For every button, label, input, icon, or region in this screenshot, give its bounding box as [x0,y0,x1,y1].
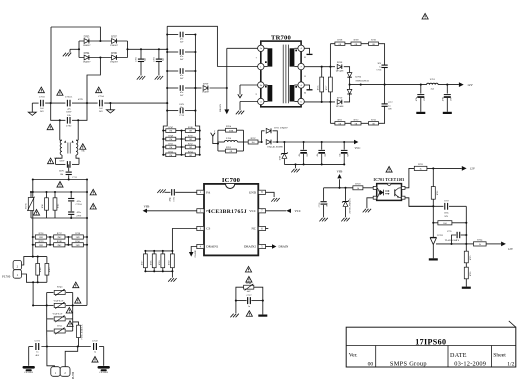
resistor R741 [46,192,48,198]
capacitor C719 [409,205,444,207]
svg-text:PL700: PL700 [72,371,75,379]
wire opto emitter [405,198,433,207]
wire rail-192 [33,191,87,193]
svg-text:R746: R746 [246,282,252,285]
wire [486,243,501,245]
wire [72,102,98,104]
warning triangle [90,203,96,209]
node [50,102,52,104]
svg-text:D711 UF4007: D711 UF4007 [274,127,288,130]
wire secondary bottom rail [304,101,335,103]
ground CS bank [168,278,171,282]
capacitor aux 321.7 [321,141,323,143]
wire stack left rail [46,293,48,332]
svg-text:D705: D705 [84,36,90,39]
svg-text:630V: 630V [60,161,65,163]
node [194,87,196,89]
svg-text:D706: D706 [111,52,117,55]
svg-text:1M: 1M [169,139,172,141]
capacitor C712 [167,34,178,36]
node [32,178,34,180]
resistor R752 [182,146,186,148]
svg-text:VFB: VFB [144,205,150,209]
IC701 pin boxes [373,186,377,189]
IC700 pin 7 VCC [258,209,265,213]
svg-text:1N4007: 1N4007 [202,90,210,93]
wire bridge left side [78,41,80,58]
wire x-cap rail [32,102,38,104]
wire [41,346,90,348]
wire aux rail [273,141,344,143]
title block outer box [346,327,516,367]
svg-text:D708: D708 [337,61,343,64]
svg-text:R742: R742 [58,204,60,209]
TR700 left pin 1b [258,82,264,88]
svg-text:R725: R725 [470,256,472,261]
svg-text:R705: R705 [226,146,232,149]
TR700 left pin 1a [258,45,264,51]
ground TL431 [429,258,438,260]
IC700 pin 6 NC [258,226,265,230]
resistor R729 [162,251,164,254]
svg-text:C721: C721 [35,340,41,343]
capacitor C727 [236,300,247,302]
resistor R741 [72,243,83,247]
capacitor C704 [99,100,101,107]
svg-text:47u: 47u [299,153,301,156]
title block divider 1 [375,346,377,368]
svg-text:SMPS Group: SMPS Group [390,360,427,367]
node [46,345,48,347]
svg-text:2M2: 2M2 [57,237,61,239]
svg-text:2n2: 2n2 [144,58,146,61]
wire bridge right to cap bank [128,48,168,50]
wire bottom ladder [330,122,383,124]
ground divider [462,287,471,289]
wire CS bank ground [171,271,173,277]
svg-text:R753: R753 [169,151,174,153]
wire grid left rail [162,131,164,155]
title block mid line [346,345,516,347]
wire to R707 [244,141,249,143]
TR700 left pin 3 [258,98,264,104]
svg-text:470u: 470u [443,97,445,101]
wire ladder right up + capacitor C717 [384,107,385,124]
wire grid right rail [199,131,201,155]
svg-text:12V: 12V [508,247,514,251]
wire to 12V [427,167,462,169]
wire to PL701 pin2 [65,347,78,367]
wire opto LED cathode to ground [367,198,373,208]
svg-text:D709: D709 [203,83,209,86]
svg-text:2n2: 2n2 [162,58,164,61]
svg-text:UF5408: UF5408 [336,70,344,73]
warning triangle [90,189,96,195]
varistor VAR2 [47,318,54,320]
capacitor C720B [68,211,74,213]
svg-text:R712: R712 [354,119,359,121]
svg-text:DRAIN: DRAIN [279,245,289,249]
resistor R728 [153,251,155,254]
wire right vertical joins stack [73,304,87,306]
svg-text:PL700: PL700 [2,274,11,278]
IC700 pin 5 DRAIN2 [258,244,265,248]
wire [344,97,350,102]
svg-text:IC702: IC702 [437,234,444,237]
wire pin1 cap [175,191,197,193]
ground C718 [319,218,322,222]
wire choke feed right [77,120,79,140]
svg-text:C702: C702 [66,125,72,128]
svg-text:VCC: VCC [354,146,360,150]
warning triangle [38,87,44,93]
varistor VA701 [30,192,32,198]
node [321,66,323,68]
svg-text:1/2: 1/2 [507,361,514,367]
warning triangle [80,144,86,150]
svg-text:4kV: 4kV [247,291,251,293]
TR700 stub 16 [304,85,309,89]
wire col joins [49,237,51,245]
resistor R747 [163,130,166,132]
node [321,101,323,103]
svg-text:D707: D707 [111,36,117,39]
node [68,178,70,180]
svg-text:470p: 470p [169,197,171,201]
svg-text:36V: 36V [377,63,381,65]
wire TL431 ref [436,243,466,245]
wire rectified down-left [87,58,100,104]
ground pin3 [236,111,239,115]
wire bridge right side [127,41,129,58]
resistor R712 [351,122,361,125]
net arrow 12V output [459,82,464,87]
ground ZD706 [341,218,344,222]
svg-text:630V: 630V [59,171,64,173]
svg-text:C711: C711 [72,177,77,179]
varistor VAR3 [47,330,54,332]
svg-text:1M: 1M [189,131,192,133]
svg-text:2M2: 2M2 [39,245,43,247]
resistor R704 [218,129,226,131]
wire rail-164 right [72,163,79,165]
wire secondary top rail [304,66,335,68]
svg-text:1N4007: 1N4007 [110,60,119,63]
svg-text:D706: D706 [356,75,362,78]
wire chassis right [103,347,105,366]
wire pin4 DRAIN1 [191,247,197,253]
IC700 pin 2 FB [197,209,204,213]
svg-text:DRAIN1: DRAIN1 [206,245,218,249]
net arrow 12V fb [501,242,506,247]
node Y-cap2 [158,48,160,50]
svg-text:R707: R707 [251,137,257,140]
svg-text:Sheet: Sheet [493,353,506,359]
wire choke feed left [59,120,61,140]
TR700 aux winding [268,85,273,102]
svg-text:GND: GND [249,190,257,194]
warning triangle [96,87,102,93]
node [77,119,79,121]
capacitor C710 [167,110,178,112]
svg-text:CS: CS [206,227,210,231]
svg-text:R722: R722 [437,191,439,196]
svg-text:10u: 10u [340,153,342,156]
svg-text:C719: C719 [444,200,449,202]
wire to transformer pin 1a [227,47,258,49]
ground C724 [443,112,452,114]
inductor LF701 right winding [76,139,78,141]
zener ZD706 [345,188,347,201]
svg-text:R751: R751 [169,144,174,146]
svg-text:Ver.: Ver. [349,353,358,359]
svg-text:1kV: 1kV [180,59,184,61]
svg-text:C703: C703 [39,96,45,99]
dual diode D706 [347,73,352,78]
wire [344,67,350,73]
resistor R748 [182,130,186,132]
wire stack feed [33,304,47,306]
svg-text:DRAIN: DRAIN [219,104,222,112]
svg-text:Z705: Z705 [280,156,282,160]
wire to TL431 [432,223,434,238]
resistor R725 [464,251,468,263]
IC700 pin 4 DRAIN1 [197,244,204,248]
capacitor C702A [66,100,68,107]
net arrow 12V mid [462,166,467,171]
ground pin8 [271,198,274,202]
warning triangle [57,182,63,188]
node sec mid [349,84,351,86]
capacitor C724 electrolytic [446,85,448,94]
capacitor C705 [140,49,142,58]
svg-text:FA: FA [206,190,211,194]
svg-text:R720: R720 [355,183,361,186]
wire pin7 VCC [266,210,287,212]
svg-text:03-12-2009: 03-12-2009 [454,360,486,367]
wire pin5 DRAIN [266,246,273,248]
title block divider 2 [447,346,449,368]
wire [465,279,467,287]
warning triangle below IC 2 [246,277,252,283]
node [109,102,111,104]
svg-text:R748: R748 [188,127,193,129]
wire ladder left down [329,44,331,67]
svg-text:C704: C704 [98,95,104,98]
net arrow VFB left [143,209,147,213]
svg-text:2kV: 2kV [99,110,103,113]
svg-text:DATE: DATE [450,353,467,359]
IC700 box [204,184,258,256]
warning triangle [73,282,79,288]
TR700 stub 15 [304,48,309,54]
svg-text:TR700: TR700 [271,35,292,42]
svg-text:100R: 100R [229,130,234,132]
ground chassis left [23,366,35,369]
svg-text:R704: R704 [226,125,232,128]
resistor R751 [163,146,166,148]
capacitor C720A [70,192,72,198]
net arrow DRAIN1 [189,252,194,257]
svg-text:2M2: 2M2 [39,237,43,239]
ground chassis right [98,366,110,369]
svg-text:TL431AAMFS: TL431AAMFS [445,239,460,242]
warning triangle [67,321,73,327]
wire F to parallel group [213,136,218,143]
IC701 transistor [394,189,396,196]
open end mark [157,189,160,193]
svg-text:C727: C727 [246,294,252,297]
svg-text:VFB: VFB [337,169,343,173]
capacitor aux 303.6 [303,141,305,143]
ground earth left [28,112,36,115]
LF701 polarity arrows [64,140,66,142]
capacitor C726 [171,189,173,195]
wire aux ground rail [284,163,344,165]
node [86,102,88,104]
wire down [432,168,434,186]
title block divider 3 [491,346,493,368]
wire pin3 to ground [240,101,258,103]
svg-text:1M: 1M [169,155,172,157]
TR700 core [282,45,284,104]
svg-text:35V: 35V [307,153,309,157]
ground opto [363,209,366,213]
svg-text:36V: 36V [388,109,392,111]
wire top ladder [330,43,383,45]
wire bridge left [236,287,244,300]
warning triangle [66,307,72,313]
wire chassis left [28,347,30,366]
wire bottom rail [29,346,34,348]
wire bridge top row [79,40,128,42]
net arrow F [211,133,215,137]
ground C705 [137,76,140,80]
TR700 left pin 1 [258,63,264,69]
resistor R716 [321,67,323,77]
svg-text:C702A: C702A [65,96,72,99]
svg-text:25V: 25V [451,97,453,101]
svg-text:R754: R754 [188,151,193,153]
capacitor C702B [66,117,68,124]
net arrow VFB up [337,174,341,178]
wire AC left vertical [50,27,52,103]
capacitor C723 electrolytic [420,85,422,94]
svg-text:DRAIN1: DRAIN1 [194,250,197,258]
wire drain vertical [226,48,228,109]
capacitor C703B [66,161,68,168]
capacitor C722 [93,343,95,350]
TR700 right pin 4 [298,45,304,51]
warning triangle [92,357,98,363]
svg-text:R730: R730 [169,261,171,266]
wire to earth left [31,103,33,112]
capacitor C713 [167,51,178,53]
svg-text:L701: L701 [430,78,436,81]
node [32,191,34,193]
net arrow DRAIN [224,109,229,114]
svg-text:R744: R744 [40,268,42,273]
wire [210,87,227,89]
wire ladder right down + capacitor C716 [384,44,385,65]
resistor R739 [35,243,46,247]
net arrow VCC aux [344,141,354,143]
resistor R742 [54,192,56,198]
wire [465,263,467,268]
wire pin8 GND [266,192,275,197]
resistor R705 [218,150,226,152]
svg-text:R741: R741 [42,204,44,209]
wire PL700 pin1 [22,274,47,282]
LF701 core [67,143,69,154]
svg-text:R750: R750 [188,136,193,138]
ground earth right [106,110,114,113]
svg-text:2M2: 2M2 [76,245,80,247]
wire stack bottom to rail [46,331,48,347]
svg-text:CHASSIS: CHASSIS [99,371,108,374]
svg-text:C725: C725 [447,231,452,233]
svg-text:VCC: VCC [249,209,256,213]
svg-text:R726: R726 [470,272,472,277]
capacitor C718 [323,188,325,201]
svg-text:C726: C726 [174,197,176,202]
wire rail-179 [33,179,87,181]
wire top feed to transformer [167,26,217,66]
ground C723 [416,112,425,114]
node [384,84,386,86]
svg-text:1M: 1M [189,139,192,141]
wire output rail [350,84,427,86]
svg-text:VCC: VCC [295,209,302,213]
svg-text:R749: R749 [169,136,174,138]
wire to transformer pin 1 [217,66,257,68]
svg-text:R747: R747 [169,127,174,129]
IC701 arrows [385,190,389,192]
inductor L701 [427,83,439,84]
svg-text:VA701: VA701 [24,203,27,209]
wire res-block row1 [33,236,87,238]
node [446,84,448,86]
svg-text:1k5: 1k5 [252,142,255,144]
wire res-block row2 [33,244,87,246]
svg-text:1M: 1M [189,155,192,157]
ground primary side [230,314,233,318]
node [32,256,34,258]
svg-text:CHASSIS: CHASSIS [24,371,33,374]
node bridge right [126,48,128,50]
svg-text:R752: R752 [188,144,193,146]
svg-text:IC700: IC700 [222,177,241,184]
TR700 secondary winding 2 [290,85,295,102]
wire bridge right [254,287,263,300]
diode D708 [337,64,342,69]
varistor R743 [47,292,54,294]
resistor R713 [369,122,379,125]
wire to secondary ground [262,301,264,315]
diode D703 [266,140,271,145]
wire grid mid rail [181,131,183,155]
corner diagonal [509,321,516,327]
wire pin3 CS [172,229,196,251]
svg-text:R727: R727 [142,261,144,266]
svg-text:1N4007: 1N4007 [83,44,92,47]
wire to primary ground [235,301,237,314]
net arrow DRAIN pin5 [272,244,276,248]
diode D705 [84,39,89,44]
wire lower x-rail right [72,103,87,120]
svg-text:470V: 470V [78,98,83,101]
svg-text:25V: 25V [424,97,426,101]
